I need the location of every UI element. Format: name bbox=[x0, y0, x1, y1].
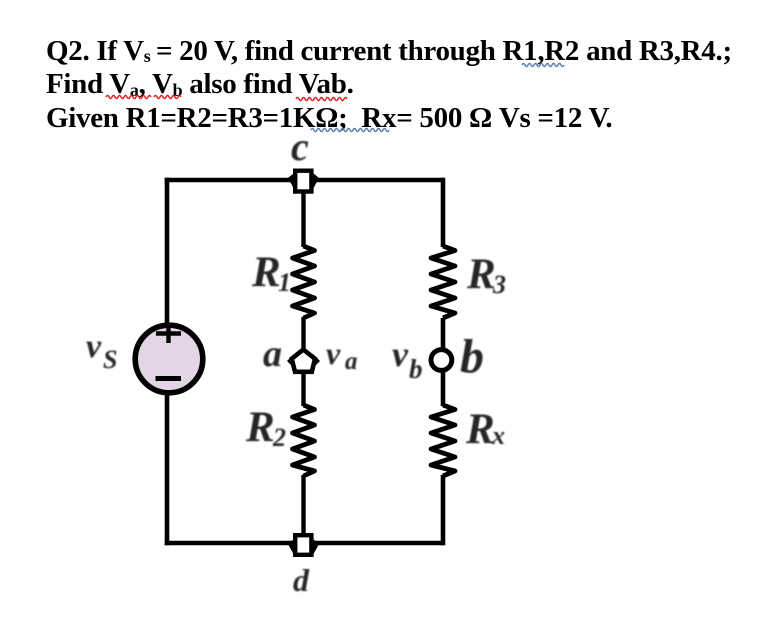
node d terminal square bbox=[288, 535, 319, 555]
voltage source VS circle bbox=[135, 325, 203, 393]
svg-text:b: b bbox=[409, 354, 423, 384]
spellcheck squiggle blue under KOhm; Rx= bbox=[311, 129, 389, 132]
wire bottom horizontal d-row bbox=[165, 541, 444, 546]
svg-text:v: v bbox=[392, 334, 409, 374]
wire top horizontal c-row bbox=[165, 178, 444, 183]
node a pentagon terminal bbox=[287, 350, 320, 372]
wire middle branch: R1 to node a bbox=[301, 317, 305, 350]
source plus sign bbox=[156, 327, 181, 344]
wire middle branch: node a to R2 bbox=[301, 372, 305, 406]
wire middle branch: R2 to node d bbox=[301, 475, 305, 534]
resistor R2 zigzag bbox=[293, 405, 315, 476]
labels group bbox=[86, 124, 506, 598]
source minus sign bbox=[156, 376, 182, 381]
svg-text:a: a bbox=[345, 348, 358, 375]
svg-text:1: 1 bbox=[278, 268, 291, 297]
wire middle branch: node c to R1 bbox=[301, 193, 305, 247]
svg-text:v: v bbox=[326, 335, 341, 371]
svg-text:R: R bbox=[465, 406, 495, 453]
svg-text:v: v bbox=[86, 328, 102, 365]
svg-text:b: b bbox=[460, 330, 484, 383]
wire right branch: R3 to node b bbox=[441, 318, 446, 350]
spellcheck squiggle red under Vab bbox=[296, 98, 347, 101]
spellcheck squiggle red under Va bbox=[106, 96, 151, 99]
svg-text:R: R bbox=[251, 249, 281, 296]
spellcheck squiggle red under Vb bbox=[154, 96, 181, 99]
spellcheck squiggle blue under R1,R2 bbox=[522, 64, 564, 67]
svg-text:d: d bbox=[293, 562, 310, 598]
node b circle terminal bbox=[431, 350, 452, 371]
wire right branch: Rx to bottom wire bbox=[441, 475, 446, 545]
svg-text:R: R bbox=[466, 251, 496, 298]
svg-text:3: 3 bbox=[492, 270, 506, 299]
resistor R1 zigzag bbox=[293, 246, 315, 318]
node c terminal square bbox=[288, 171, 319, 192]
resistor Rx zigzag bbox=[431, 405, 455, 476]
svg-text:c: c bbox=[291, 124, 309, 169]
problem statement text bbox=[46, 35, 732, 136]
wire right branch: node b to Rx bbox=[441, 371, 446, 406]
svg-text:x: x bbox=[491, 421, 505, 450]
wire left vertical upper (top wire to source) bbox=[165, 178, 170, 326]
svg-text:a: a bbox=[263, 333, 282, 375]
resistor R3 zigzag bbox=[431, 246, 455, 318]
svg-text:R: R bbox=[245, 404, 275, 451]
svg-text:2: 2 bbox=[272, 423, 286, 452]
svg-text:S: S bbox=[103, 345, 117, 374]
wire left vertical lower (source to bottom wire) bbox=[165, 392, 170, 545]
wire right branch: top wire to R3 bbox=[441, 178, 446, 247]
